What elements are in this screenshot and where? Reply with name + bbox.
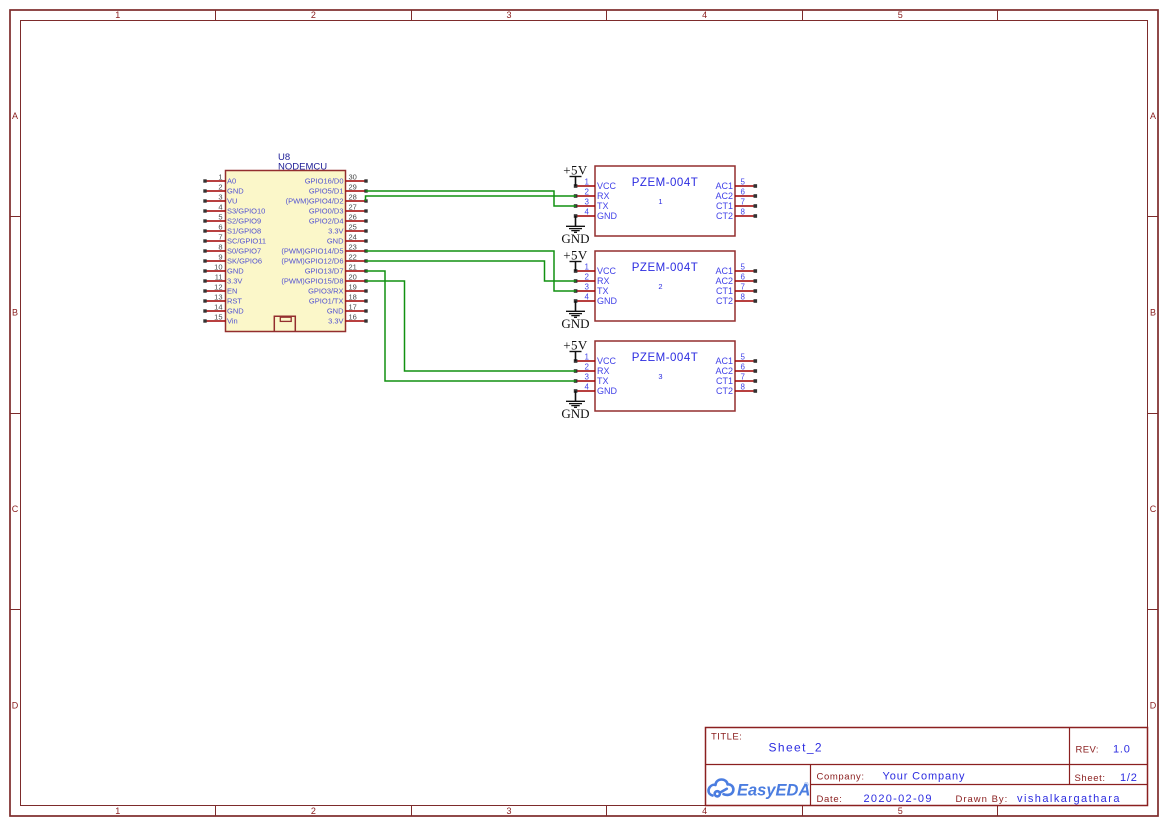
svg-text:SK/GPIO6: SK/GPIO6 xyxy=(227,257,262,266)
U8 pin 17 GND xyxy=(327,303,368,316)
svg-text:3: 3 xyxy=(585,198,590,207)
svg-text:GPIO3/RX: GPIO3/RX xyxy=(308,287,343,296)
ground symbol for PZEM 3 xyxy=(561,391,589,421)
U8 pin 9 SK/GPIO6 xyxy=(203,253,262,266)
U8 pin 14 GND xyxy=(203,303,244,316)
svg-text:3.3V: 3.3V xyxy=(227,277,242,286)
svg-text:11: 11 xyxy=(215,273,223,282)
U8 pin 29 GPIO5/D1 xyxy=(309,183,368,196)
svg-text:23: 23 xyxy=(349,243,357,252)
svg-text:2: 2 xyxy=(218,183,222,192)
svg-text:1: 1 xyxy=(658,197,662,206)
svg-text:5: 5 xyxy=(741,178,746,187)
U8 pin 8 S0/GPIO7 xyxy=(203,243,261,256)
svg-text:D: D xyxy=(12,700,19,710)
svg-text:RX: RX xyxy=(597,191,610,201)
svg-text:9: 9 xyxy=(218,253,222,262)
svg-text:1: 1 xyxy=(115,806,120,816)
svg-text:TITLE:: TITLE: xyxy=(711,732,742,743)
U8 pin 5 S2/GPIO9 xyxy=(203,213,261,226)
U8 pin 24 GND xyxy=(327,233,368,246)
svg-text:13: 13 xyxy=(214,293,222,302)
U8 pin 19 GPIO3/RX xyxy=(308,283,368,296)
svg-text:S0/GPIO7: S0/GPIO7 xyxy=(227,247,261,256)
svg-text:Vin: Vin xyxy=(227,317,238,326)
svg-text:4: 4 xyxy=(702,10,707,20)
svg-text:PZEM-004T: PZEM-004T xyxy=(632,177,699,189)
svg-text:+5V: +5V xyxy=(563,248,588,263)
svg-text:TX: TX xyxy=(597,201,609,211)
svg-text:RX: RX xyxy=(597,276,610,286)
PZEM-004T module 1 body xyxy=(595,166,735,236)
svg-text:7: 7 xyxy=(741,373,746,382)
svg-text:27: 27 xyxy=(349,203,357,212)
svg-text:AC1: AC1 xyxy=(715,356,733,366)
svg-text:C: C xyxy=(12,504,19,514)
svg-text:3: 3 xyxy=(218,193,222,202)
svg-text:21: 21 xyxy=(349,263,357,272)
svg-text:AC2: AC2 xyxy=(715,276,733,286)
PZEM 3 pin 7 CT1 xyxy=(716,373,757,387)
row labels left xyxy=(12,111,19,711)
PZEM 3 pin 3 TX xyxy=(574,373,609,387)
svg-text:GPIO13/D7: GPIO13/D7 xyxy=(305,267,344,276)
svg-text:+5V: +5V xyxy=(563,163,588,178)
U8 pin 15 Vin xyxy=(203,313,237,326)
U8 pin 21 GPIO13/D7 xyxy=(305,263,368,276)
svg-text:GND: GND xyxy=(561,231,589,246)
column tick marks top xyxy=(216,10,998,20)
PZEM 1 pin 3 TX xyxy=(574,198,609,212)
svg-text:SC/GPIO11: SC/GPIO11 xyxy=(227,237,266,246)
svg-text:B: B xyxy=(12,307,18,317)
wire U8 D7 to PZEM3 TX xyxy=(366,271,577,381)
title block border xyxy=(705,727,1148,806)
svg-text:6: 6 xyxy=(741,273,746,282)
svg-text:Sheet_2: Sheet_2 xyxy=(769,741,824,755)
wire U8 D8 to PZEM3 RX xyxy=(366,281,577,371)
svg-text:CT2: CT2 xyxy=(716,386,733,396)
svg-text:20: 20 xyxy=(349,273,357,282)
svg-text:8: 8 xyxy=(741,383,746,392)
svg-text:CT1: CT1 xyxy=(716,201,733,211)
svg-text:CT2: CT2 xyxy=(716,211,733,221)
svg-text:GND: GND xyxy=(227,267,244,276)
U8 pin 16 3.3V xyxy=(328,313,368,326)
svg-text:15: 15 xyxy=(214,313,222,322)
svg-text:A: A xyxy=(1150,111,1156,121)
svg-text:VCC: VCC xyxy=(597,181,617,191)
svg-text:Company:: Company: xyxy=(817,771,865,782)
svg-text:6: 6 xyxy=(741,363,746,372)
svg-text:S3/GPIO10: S3/GPIO10 xyxy=(227,207,265,216)
svg-text:5: 5 xyxy=(898,10,903,20)
svg-text:GND: GND xyxy=(327,237,344,246)
PZEM 1 pin 6 AC2 xyxy=(715,188,757,202)
svg-text:10: 10 xyxy=(214,263,222,272)
PZEM 1 pin 8 CT2 xyxy=(716,208,757,222)
svg-text:5: 5 xyxy=(898,806,903,816)
svg-text:29: 29 xyxy=(349,183,357,192)
svg-text:GND: GND xyxy=(597,296,618,306)
U8 pin 18 GPIO1/TX xyxy=(309,293,368,306)
PZEM 3 pin 8 CT2 xyxy=(716,383,757,397)
U8 pin 20 (PWM)GPIO15/D8 xyxy=(281,273,367,286)
svg-text:1: 1 xyxy=(585,178,590,187)
PZEM 1 pin 1 VCC xyxy=(574,178,617,192)
svg-text:7: 7 xyxy=(741,198,746,207)
PZEM 2 pin 2 RX xyxy=(574,273,610,287)
PZEM 1 pin 7 CT1 xyxy=(716,198,757,212)
U8 pin 3 VU xyxy=(203,193,237,206)
svg-text:+5V: +5V xyxy=(563,338,588,353)
svg-text:5: 5 xyxy=(741,263,746,272)
svg-text:28: 28 xyxy=(349,193,357,202)
PZEM 3 pin 4 GND xyxy=(574,383,618,397)
svg-text:1.0: 1.0 xyxy=(1113,744,1131,756)
column labels bottom xyxy=(115,806,902,816)
PZEM 1 pin 5 AC1 xyxy=(715,178,757,192)
PZEM 2 pin 4 GND xyxy=(574,293,618,307)
svg-text:2: 2 xyxy=(311,806,316,816)
U8 pin 25 3.3V xyxy=(328,223,368,236)
svg-text:B: B xyxy=(1150,307,1156,317)
svg-text:26: 26 xyxy=(349,213,357,222)
svg-text:GND: GND xyxy=(561,316,589,331)
svg-text:D: D xyxy=(1150,700,1157,710)
PZEM 3 pin 2 RX xyxy=(574,363,610,377)
svg-text:GPIO1/TX: GPIO1/TX xyxy=(309,297,344,306)
U8 pin 22 (PWM)GPIO12/D6 xyxy=(281,253,367,266)
svg-text:4: 4 xyxy=(585,383,590,392)
svg-text:22: 22 xyxy=(349,253,357,262)
+5V power symbol for PZEM 3 xyxy=(563,338,588,362)
svg-text:8: 8 xyxy=(741,293,746,302)
svg-text:4: 4 xyxy=(702,806,707,816)
svg-text:(PWM)GPIO14/D5: (PWM)GPIO14/D5 xyxy=(281,247,343,256)
svg-text:2020-02-09: 2020-02-09 xyxy=(864,793,933,805)
svg-text:GPIO5/D1: GPIO5/D1 xyxy=(309,187,344,196)
svg-text:4: 4 xyxy=(585,208,590,217)
wire U8 D2 to PZEM1 RX xyxy=(366,196,577,201)
wire U8 D1 to PZEM1 TX xyxy=(366,191,577,206)
svg-text:4: 4 xyxy=(585,293,590,302)
row tick marks right xyxy=(1148,217,1158,610)
U8 pin 10 GND xyxy=(203,263,244,276)
U8 pin 12 EN xyxy=(203,283,237,296)
svg-text:12: 12 xyxy=(214,283,222,292)
U8 pin 1 A0 xyxy=(203,173,236,186)
svg-text:3: 3 xyxy=(506,10,511,20)
svg-text:17: 17 xyxy=(349,303,357,312)
svg-text:24: 24 xyxy=(349,233,357,242)
column tick marks bottom xyxy=(216,806,998,816)
svg-text:3: 3 xyxy=(585,373,590,382)
U8 pin 23 (PWM)GPIO14/D5 xyxy=(281,243,367,256)
svg-text:A: A xyxy=(12,111,18,121)
PZEM 2 pin 6 AC2 xyxy=(715,273,757,287)
svg-text:TX: TX xyxy=(597,286,609,296)
svg-text:1: 1 xyxy=(218,173,222,182)
svg-text:4: 4 xyxy=(218,203,222,212)
svg-text:18: 18 xyxy=(349,293,357,302)
svg-text:S1/GPIO8: S1/GPIO8 xyxy=(227,227,261,236)
svg-text:2: 2 xyxy=(658,282,662,291)
svg-text:VU: VU xyxy=(227,197,237,206)
svg-text:PZEM-004T: PZEM-004T xyxy=(632,262,699,274)
wire U8 D6 to PZEM2 RX xyxy=(366,261,577,281)
svg-text:1: 1 xyxy=(585,263,590,272)
svg-text:VCC: VCC xyxy=(597,356,617,366)
U8 pin 13 RST xyxy=(203,293,242,306)
svg-text:NODEMCU: NODEMCU xyxy=(278,162,327,173)
svg-text:30: 30 xyxy=(349,173,357,182)
svg-text:(PWM)GPIO15/D8: (PWM)GPIO15/D8 xyxy=(281,277,343,286)
+5V power symbol for PZEM 2 xyxy=(563,248,588,272)
row labels right xyxy=(1150,111,1157,711)
PZEM 3 pin 6 AC2 xyxy=(715,363,757,377)
svg-text:VCC: VCC xyxy=(597,266,617,276)
op-amp U8 NODEMCU body xyxy=(226,171,346,332)
svg-text:6: 6 xyxy=(741,188,746,197)
svg-text:GPIO2/D4: GPIO2/D4 xyxy=(309,217,344,226)
svg-text:Drawn By:: Drawn By: xyxy=(956,794,1009,805)
wire U8 D5 to PZEM2 TX xyxy=(366,251,577,291)
svg-text:7: 7 xyxy=(218,233,222,242)
svg-text:7: 7 xyxy=(741,283,746,292)
ground symbol for PZEM 2 xyxy=(561,301,589,331)
svg-text:14: 14 xyxy=(214,303,222,312)
svg-text:CT1: CT1 xyxy=(716,286,733,296)
svg-text:AC1: AC1 xyxy=(715,181,733,191)
svg-text:8: 8 xyxy=(218,243,222,252)
svg-text:16: 16 xyxy=(349,313,357,322)
svg-text:AC2: AC2 xyxy=(715,366,733,376)
U8 pin 6 S1/GPIO8 xyxy=(203,223,261,236)
U8 pin 27 GPIO0/D3 xyxy=(309,203,368,216)
PZEM 2 pin 1 VCC xyxy=(574,263,617,277)
svg-text:AC2: AC2 xyxy=(715,191,733,201)
svg-text:1: 1 xyxy=(585,353,590,362)
svg-text:Sheet:: Sheet: xyxy=(1075,773,1106,784)
svg-text:3.3V: 3.3V xyxy=(328,317,343,326)
svg-text:2: 2 xyxy=(585,363,590,372)
svg-text:GPIO16/D0: GPIO16/D0 xyxy=(305,177,344,186)
svg-text:EN: EN xyxy=(227,287,237,296)
PZEM 3 pin 5 AC1 xyxy=(715,353,757,367)
svg-text:EasyEDA: EasyEDA xyxy=(737,782,810,800)
U8 pin 11 3.3V xyxy=(203,273,242,286)
svg-text:GND: GND xyxy=(227,307,244,316)
column labels top xyxy=(115,10,902,20)
svg-text:1/2: 1/2 xyxy=(1120,772,1138,784)
row tick marks left xyxy=(10,217,20,610)
U8 pin 28 (PWM)GPIO4/D2 xyxy=(286,193,368,206)
svg-text:5: 5 xyxy=(741,353,746,362)
svg-text:8: 8 xyxy=(741,208,746,217)
PZEM 2 pin 5 AC1 xyxy=(715,263,757,277)
svg-text:A0: A0 xyxy=(227,177,236,186)
PZEM 1 pin 2 RX xyxy=(574,188,610,202)
svg-text:Your Company: Your Company xyxy=(883,770,966,782)
svg-text:Date:: Date: xyxy=(817,794,843,805)
svg-text:GND: GND xyxy=(561,406,589,421)
svg-text:AC1: AC1 xyxy=(715,266,733,276)
svg-text:3.3V: 3.3V xyxy=(328,227,343,236)
svg-text:S2/GPIO9: S2/GPIO9 xyxy=(227,217,261,226)
PZEM 1 pin 4 GND xyxy=(574,208,618,222)
U8 pin 26 GPIO2/D4 xyxy=(309,213,368,226)
svg-text:PZEM-004T: PZEM-004T xyxy=(632,352,699,364)
svg-text:C: C xyxy=(1150,504,1157,514)
svg-text:3: 3 xyxy=(585,283,590,292)
U8 pin 7 SC/GPIO11 xyxy=(203,233,266,246)
PZEM-004T module 2 body xyxy=(595,251,735,321)
svg-text:19: 19 xyxy=(349,283,357,292)
svg-text:2: 2 xyxy=(585,188,590,197)
svg-text:25: 25 xyxy=(349,223,357,232)
svg-text:vishalkargathara: vishalkargathara xyxy=(1017,793,1121,805)
svg-text:3: 3 xyxy=(506,806,511,816)
U8 USB notch xyxy=(274,316,295,331)
svg-text:GND: GND xyxy=(597,386,618,396)
svg-text:2: 2 xyxy=(585,273,590,282)
svg-text:®: ® xyxy=(804,782,809,789)
PZEM 2 pin 8 CT2 xyxy=(716,293,757,307)
svg-text:GND: GND xyxy=(227,187,244,196)
svg-text:2: 2 xyxy=(311,10,316,20)
svg-text:5: 5 xyxy=(218,213,222,222)
svg-text:1: 1 xyxy=(115,10,120,20)
EasyEDA logo cloud icon xyxy=(709,780,734,797)
svg-text:GPIO0/D3: GPIO0/D3 xyxy=(309,207,344,216)
svg-text:3: 3 xyxy=(658,372,662,381)
svg-text:REV:: REV: xyxy=(1076,745,1099,756)
svg-text:GND: GND xyxy=(597,211,618,221)
PZEM 2 pin 7 CT1 xyxy=(716,283,757,297)
svg-text:RX: RX xyxy=(597,366,610,376)
svg-text:(PWM)GPIO12/D6: (PWM)GPIO12/D6 xyxy=(281,257,343,266)
svg-text:GND: GND xyxy=(327,307,344,316)
+5V power symbol for PZEM 1 xyxy=(563,163,588,187)
U8 pin 30 GPIO16/D0 xyxy=(305,173,368,186)
PZEM 2 pin 3 TX xyxy=(574,283,609,297)
PZEM 3 pin 1 VCC xyxy=(574,353,617,367)
U8 pin 2 GND xyxy=(203,183,244,196)
PZEM-004T module 3 body xyxy=(595,341,735,411)
svg-text:RST: RST xyxy=(227,297,242,306)
svg-text:CT1: CT1 xyxy=(716,376,733,386)
U8 pin 4 S3/GPIO10 xyxy=(203,203,265,216)
svg-text:CT2: CT2 xyxy=(716,296,733,306)
svg-text:6: 6 xyxy=(218,223,222,232)
ground symbol for PZEM 1 xyxy=(561,216,589,246)
svg-text:TX: TX xyxy=(597,376,609,386)
svg-text:(PWM)GPIO4/D2: (PWM)GPIO4/D2 xyxy=(286,197,344,206)
